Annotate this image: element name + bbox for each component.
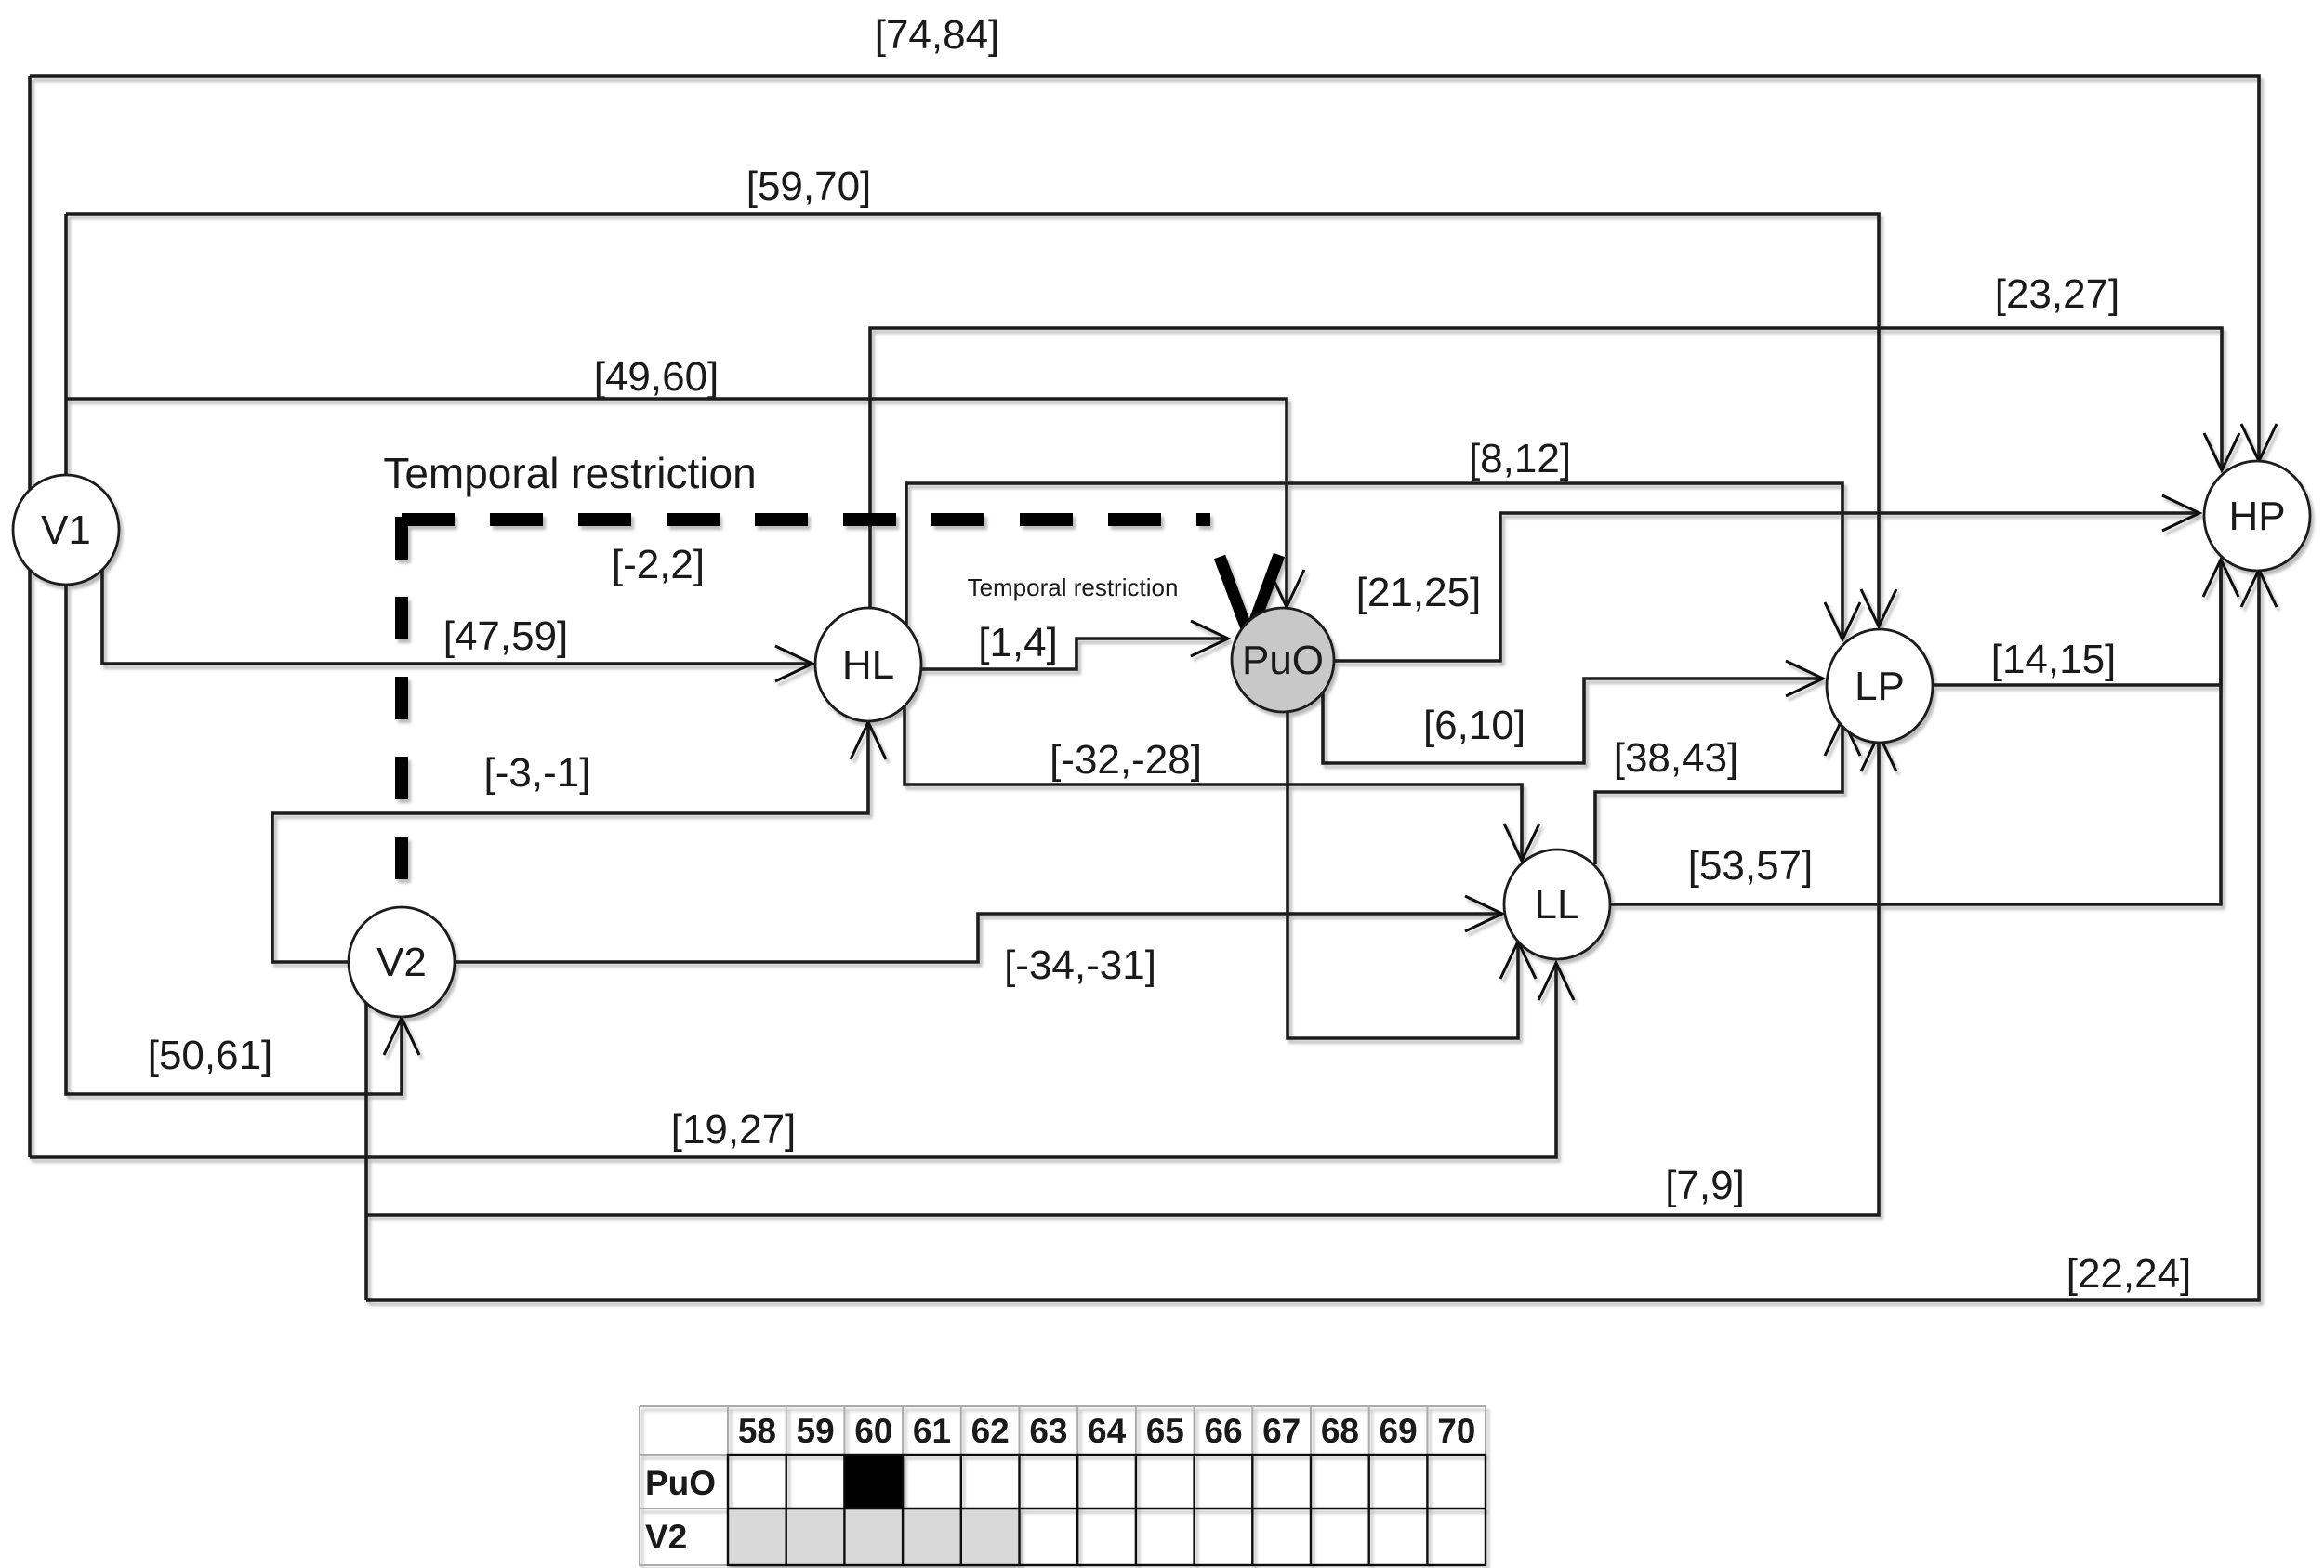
- svg-text:HL: HL: [842, 642, 894, 688]
- svg-text:64: 64: [1088, 1412, 1127, 1450]
- wire LP to HP [14,15]: [1934, 560, 2221, 685]
- wire V1 to HP [74,84] top line: [30, 76, 2259, 461]
- svg-text:[50,61]: [50,61]: [148, 1033, 273, 1078]
- arrowhead into HL left from [47,59]: [775, 646, 812, 681]
- arrowhead into HL bottom from [-3,-1]: [851, 722, 886, 759]
- wire HL to PuO [1,4]: [921, 639, 1228, 669]
- svg-text:PuO: PuO: [645, 1464, 716, 1502]
- svg-text:[1,4]: [1,4]: [978, 620, 1058, 665]
- svg-text:62: 62: [971, 1412, 1010, 1450]
- svg-text:61: 61: [913, 1412, 951, 1450]
- svg-text:[-32,-28]: [-32,-28]: [1050, 737, 1202, 783]
- wire vertical below V2: [364, 1002, 368, 1300]
- svg-text:66: 66: [1204, 1412, 1242, 1450]
- wire left vertical shared by V1-HP and V1-LL: [28, 76, 32, 1157]
- svg-text:[-34,-31]: [-34,-31]: [1004, 942, 1156, 988]
- node HP: [2204, 461, 2310, 571]
- wire V1 to V2 [50,61]: [66, 583, 402, 1094]
- table header numbers: [738, 1412, 1476, 1450]
- wire LL to LP [38,43]: [1595, 718, 1842, 864]
- arrowhead into V2 bottom from [50,61]: [384, 1018, 419, 1055]
- wire V2 to LL [-34,-31]: [455, 914, 1502, 962]
- svg-text:59: 59: [797, 1412, 835, 1450]
- arrowhead into HP left from [21,25]: [2162, 495, 2199, 531]
- arrowhead into PuO top from [49,60]: [1269, 570, 1304, 607]
- svg-text:65: 65: [1146, 1412, 1184, 1450]
- arrowhead into LP left from [6,10]: [1786, 661, 1823, 696]
- arrowhead into LL bottom-left from PuO: [1500, 942, 1536, 979]
- node LL: [1504, 850, 1610, 959]
- svg-text:[74,84]: [74,84]: [875, 12, 1000, 58]
- node V1: [13, 475, 119, 585]
- svg-text:V1: V1: [41, 507, 91, 553]
- wire PuO to LP [6,10]: [1323, 679, 1823, 763]
- big dashed-edge arrowhead into PuO: [1220, 555, 1279, 636]
- wire V1 to LL [19,27] bottom line: [30, 963, 1556, 1157]
- wire V2 to HL [-3,-1]: [272, 722, 868, 962]
- svg-text:PuO: PuO: [1242, 638, 1324, 683]
- wire PuO to HP [21,25]: [1334, 513, 2199, 661]
- wire HL to LL [-32,-28]: [905, 704, 1522, 861]
- node LP: [1827, 629, 1933, 743]
- arrowhead into HP bottom-left from [14,15] and [53,57]: [2203, 560, 2238, 597]
- arrowhead into LL top-left from [-32,-28]: [1504, 824, 1539, 861]
- svg-text:[21,25]: [21,25]: [1356, 570, 1482, 615]
- svg-text:[-2,2]: [-2,2]: [612, 542, 705, 587]
- arrowhead into HP bottom from [22,24]: [2241, 570, 2277, 607]
- arrowhead into LP bottom from [7,9]: [1861, 734, 1896, 771]
- arrowhead into LP top-left from [8,12]: [1825, 602, 1860, 639]
- wire HL to LP [8,12]: [906, 483, 1842, 639]
- wire vertical above V1: [64, 214, 68, 477]
- svg-text:[7,9]: [7,9]: [1665, 1163, 1745, 1208]
- svg-text:Temporal restriction: Temporal restriction: [383, 449, 756, 497]
- dashed temporal restriction vertical down to V2: [395, 517, 408, 909]
- svg-text:[38,43]: [38,43]: [1614, 735, 1739, 781]
- table grid black part: [728, 1455, 1486, 1565]
- svg-text:[14,15]: [14,15]: [1991, 637, 2117, 682]
- wire HL to HP [23,27]: [870, 328, 2222, 608]
- svg-text:[22,24]: [22,24]: [2067, 1251, 2192, 1297]
- svg-text:[53,57]: [53,57]: [1688, 843, 1814, 889]
- svg-text:[47,59]: [47,59]: [443, 613, 569, 659]
- arrowhead into HP top from [74,84]: [2241, 424, 2277, 461]
- table grid gray part: [640, 1406, 1486, 1565]
- wire V1 to PuO [49,60]: [67, 399, 1287, 607]
- table cell PuO at 60 black fill: [844, 1455, 903, 1509]
- arrowhead into HP top-left from [23,27]: [2204, 433, 2239, 470]
- wire PuO to LL: [1287, 711, 1518, 1038]
- svg-text:69: 69: [1380, 1412, 1418, 1450]
- svg-text:[23,27]: [23,27]: [1995, 271, 2120, 317]
- svg-text:[49,60]: [49,60]: [594, 354, 720, 400]
- svg-text:[-3,-1]: [-3,-1]: [484, 750, 591, 796]
- svg-text:LL: LL: [1535, 882, 1580, 928]
- svg-text:Temporal restriction: Temporal restriction: [968, 573, 1179, 601]
- svg-text:60: 60: [854, 1412, 892, 1450]
- svg-text:[59,70]: [59,70]: [746, 164, 872, 209]
- svg-text:67: 67: [1262, 1412, 1301, 1450]
- dashed temporal restriction horizontal V2 to PuO [-2,2]: [402, 513, 1210, 526]
- arrowhead into LP bottom-left from [38,43]: [1825, 718, 1860, 756]
- node V2: [349, 907, 455, 1017]
- svg-text:68: 68: [1321, 1412, 1359, 1450]
- svg-text:70: 70: [1437, 1412, 1475, 1450]
- arrowhead into LP top from [59,70]: [1861, 589, 1896, 626]
- svg-text:63: 63: [1029, 1412, 1067, 1450]
- svg-text:[19,27]: [19,27]: [671, 1107, 797, 1153]
- svg-text:V2: V2: [645, 1518, 687, 1556]
- wire V1 to HL [47,59]: [102, 569, 812, 664]
- arrowhead into LL left from [-34,-31]: [1465, 896, 1502, 931]
- wire LL to HP [53,57]: [1611, 560, 2221, 904]
- wire V2 to HP [22,24]: [366, 570, 2259, 1300]
- svg-text:V2: V2: [376, 940, 427, 985]
- wire V1 to LP [59,70]: [66, 214, 1879, 626]
- node HL: [815, 608, 921, 721]
- svg-text:58: 58: [738, 1412, 776, 1450]
- svg-text:[6,10]: [6,10]: [1423, 703, 1525, 748]
- arrowhead into LL bottom from [19,27]: [1538, 963, 1574, 1000]
- arrowhead into PuO left from [1,4]: [1191, 621, 1228, 656]
- wire V2 to LP [7,9]: [366, 734, 1879, 1215]
- svg-text:[8,12]: [8,12]: [1469, 436, 1571, 481]
- svg-text:HP: HP: [2228, 494, 2285, 539]
- svg-text:LP: LP: [1855, 664, 1905, 709]
- node PuO: [1232, 608, 1334, 712]
- table cells V2 58-62 gray fill: [728, 1509, 1020, 1565]
